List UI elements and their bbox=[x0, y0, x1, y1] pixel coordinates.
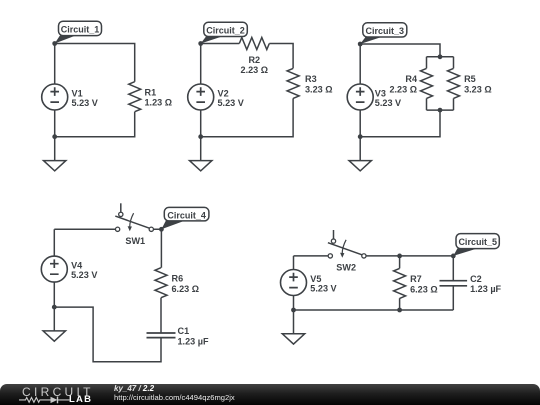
svg-text:V1: V1 bbox=[72, 88, 83, 98]
ground circuit 4 bbox=[43, 307, 65, 341]
label Circuit_3 bbox=[360, 23, 407, 44]
svg-text:V4: V4 bbox=[71, 260, 83, 270]
svg-text:5.23 V: 5.23 V bbox=[375, 98, 401, 108]
svg-text:6.23 Ω: 6.23 Ω bbox=[410, 284, 438, 294]
svg-text:SW2: SW2 bbox=[336, 263, 356, 273]
wire C2 legs bbox=[452, 256, 454, 310]
svg-text:C1: C1 bbox=[178, 326, 190, 336]
value label C1 bbox=[178, 326, 209, 347]
voltage source V3 bbox=[347, 84, 373, 110]
footer bar bbox=[0, 384, 540, 405]
node circuit 4 bottom-left bbox=[52, 305, 57, 310]
svg-text:1.23 µF: 1.23 µF bbox=[470, 284, 501, 294]
value label R1 bbox=[145, 87, 173, 107]
wire circuit 3 top bar bbox=[427, 56, 454, 58]
resistor R5 bbox=[448, 68, 460, 98]
wire circuit 3 loop bbox=[360, 44, 453, 137]
value label C2 bbox=[470, 274, 501, 294]
svg-text:R6: R6 bbox=[172, 274, 184, 284]
svg-text:3.23 Ω: 3.23 Ω bbox=[305, 84, 333, 94]
resistor R6 bbox=[155, 268, 167, 298]
node circuit 5 R7 bottom bbox=[397, 308, 402, 313]
node circuit 5 R7 top bbox=[397, 254, 402, 259]
value label R7 bbox=[410, 274, 438, 294]
svg-text:6.23 Ω: 6.23 Ω bbox=[172, 284, 200, 294]
value label V1 bbox=[72, 88, 98, 108]
svg-text:5.23 V: 5.23 V bbox=[218, 98, 244, 108]
svg-text:R7: R7 bbox=[410, 274, 422, 284]
voltage source V1 bbox=[42, 84, 68, 110]
svg-text:1.23 Ω: 1.23 Ω bbox=[145, 98, 173, 108]
value label R6 bbox=[172, 274, 200, 294]
node circuit 3 bottom-left bbox=[358, 134, 363, 139]
wire circuit 3 bottom bar bbox=[427, 109, 454, 111]
svg-text:R2: R2 bbox=[248, 55, 260, 65]
value label R5 bbox=[464, 74, 492, 94]
resistor R4 bbox=[421, 68, 433, 98]
wire circuit 5 top bbox=[294, 256, 454, 270]
ground circuit 5 bbox=[282, 310, 304, 344]
svg-text:R5: R5 bbox=[464, 74, 476, 84]
resistor R3 bbox=[287, 68, 299, 98]
capacitor C1 bbox=[147, 333, 176, 338]
svg-text:Circuit_3: Circuit_3 bbox=[366, 26, 405, 36]
node circuit 1 top bbox=[52, 41, 57, 46]
wire circuit 5 bottom bbox=[294, 296, 454, 311]
value label R2 bbox=[241, 55, 269, 75]
wire circuit 4 return bbox=[54, 282, 161, 362]
voltage source V4 bbox=[41, 256, 67, 282]
switch SW1 bbox=[115, 203, 153, 231]
wire circuit 1 loop bbox=[55, 44, 135, 137]
value label V3 bbox=[375, 88, 401, 108]
footer url bbox=[114, 394, 235, 402]
svg-text:R1: R1 bbox=[145, 87, 157, 97]
label Circuit_5 bbox=[453, 234, 499, 256]
svg-text:Circuit_2: Circuit_2 bbox=[206, 26, 245, 36]
svg-text:Circuit_1: Circuit_1 bbox=[61, 25, 100, 35]
svg-text:C2: C2 bbox=[470, 274, 482, 284]
node circuit 3 parallel top bbox=[438, 54, 443, 59]
node circuit 4 switch-right bbox=[159, 227, 164, 232]
value label V2 bbox=[218, 88, 244, 108]
wire R7 legs bbox=[399, 256, 401, 310]
label Circuit_2 bbox=[201, 22, 248, 43]
footer title bbox=[114, 385, 154, 393]
node circuit 5 C2 top bbox=[451, 254, 456, 259]
label Circuit_1 bbox=[55, 21, 102, 43]
svg-text:V5: V5 bbox=[310, 274, 321, 284]
wire R6 to C1 bbox=[160, 298, 162, 333]
value label V4 bbox=[71, 260, 97, 280]
svg-text:5.23 V: 5.23 V bbox=[71, 270, 97, 280]
svg-text:5.23 V: 5.23 V bbox=[310, 283, 336, 293]
svg-text:V2: V2 bbox=[218, 88, 229, 98]
svg-text:Circuit_5: Circuit_5 bbox=[458, 237, 497, 247]
resistor R1 bbox=[129, 82, 141, 112]
svg-text:2.23 Ω: 2.23 Ω bbox=[241, 65, 269, 75]
ground circuit 2 bbox=[190, 137, 212, 171]
voltage source V2 bbox=[188, 84, 214, 110]
wire circuit 2 loop bbox=[201, 44, 293, 137]
ground circuit 1 bbox=[44, 137, 66, 171]
voltage source V5 bbox=[281, 270, 307, 296]
node circuit 5 bottom-left bbox=[291, 308, 296, 313]
svg-text:5.23 V: 5.23 V bbox=[72, 98, 98, 108]
value label R4 bbox=[389, 74, 417, 94]
svg-text:SW1: SW1 bbox=[125, 236, 145, 246]
value label R3 bbox=[305, 74, 333, 94]
svg-text:1.23 µF: 1.23 µF bbox=[178, 337, 209, 347]
node circuit 3 parallel bottom bbox=[438, 108, 443, 113]
svg-text:3.23 Ω: 3.23 Ω bbox=[464, 84, 492, 94]
node circuit 3 top-left bbox=[358, 42, 363, 47]
value label V5 bbox=[310, 274, 336, 294]
node circuit 2 bottom bbox=[198, 134, 203, 139]
svg-text:2.23 Ω: 2.23 Ω bbox=[389, 84, 417, 94]
svg-text:Circuit_4: Circuit_4 bbox=[167, 210, 206, 220]
label Circuit_4 bbox=[161, 207, 209, 229]
node circuit 2 top bbox=[198, 41, 203, 46]
resistor R2 bbox=[239, 38, 269, 50]
node circuit 1 bottom bbox=[52, 134, 57, 139]
logo squiggle bbox=[19, 396, 70, 404]
svg-text:V3: V3 bbox=[375, 88, 386, 98]
switch SW2 bbox=[328, 230, 366, 258]
resistor R7 bbox=[394, 268, 406, 298]
svg-text:R4: R4 bbox=[405, 74, 418, 84]
capacitor C2 bbox=[440, 281, 468, 286]
logo LAB bbox=[69, 395, 92, 405]
logo CIRCUIT bbox=[22, 386, 94, 398]
wire circuit 4 top bbox=[54, 229, 161, 267]
svg-text:R3: R3 bbox=[305, 74, 317, 84]
ground circuit 3 bbox=[349, 137, 371, 171]
